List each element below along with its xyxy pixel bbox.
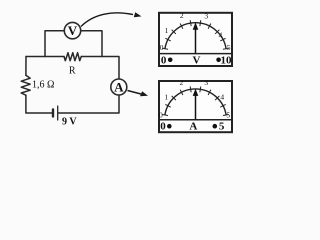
svg-text:A: A <box>189 121 197 133</box>
svg-text:0: 0 <box>160 121 166 133</box>
svg-text:1: 1 <box>164 92 168 101</box>
svg-text:R: R <box>69 65 76 76</box>
svg-text:9 V: 9 V <box>62 117 77 128</box>
svg-text:0: 0 <box>161 54 167 66</box>
svg-text:4: 4 <box>220 92 224 101</box>
svg-text:0: 0 <box>160 43 164 52</box>
svg-text:5: 5 <box>227 43 231 52</box>
svg-text:V: V <box>68 23 78 38</box>
svg-text:1,6 Ω: 1,6 Ω <box>32 79 54 90</box>
svg-text:0: 0 <box>159 110 163 119</box>
svg-text:1: 1 <box>165 26 169 35</box>
svg-text:A: A <box>114 80 124 95</box>
svg-text:5: 5 <box>226 110 230 119</box>
svg-text:2: 2 <box>180 11 184 20</box>
svg-text:4: 4 <box>219 31 223 40</box>
svg-text:5: 5 <box>219 121 225 133</box>
svg-text:3: 3 <box>204 78 208 87</box>
svg-text:V: V <box>193 54 201 66</box>
svg-text:2: 2 <box>180 78 184 87</box>
svg-text:10: 10 <box>221 54 233 66</box>
svg-text:3: 3 <box>204 11 208 20</box>
